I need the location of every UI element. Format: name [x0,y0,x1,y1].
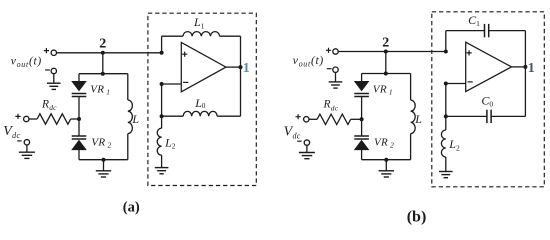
svg-text:2: 2 [99,37,106,52]
wire VR2 to bottom rail (a) [78,150,80,160]
wire right column top (b) [410,74,412,101]
caption (a) [123,200,140,216]
svg-text:2: 2 [382,35,389,50]
wire bottom rail left (a) [162,115,184,117]
label v_out(t) (a) [11,56,42,69]
wire node2 to opamp input (a) [103,52,162,54]
wire tank top rail (b) [362,73,411,75]
varactor VR1 (a) [72,81,87,96]
node opamp - input junction (a) [160,82,182,86]
node vout+ terminal (a) [44,48,103,56]
wire L2 top (a) [161,116,163,128]
wire left column top (b) [361,74,363,82]
wire top rail left (b) [446,30,485,32]
capacitor C0 (b) [487,110,491,123]
node Rdc-varactor junction (b) [360,117,364,121]
ground below L2 (a) [155,155,169,174]
node Rdc-varactor junction (a) [77,117,81,121]
node 2 (a) [99,37,106,55]
wire node2 to opamp input (b) [386,51,446,53]
ground below L2 (b) [439,157,453,178]
wire VR2 to bottom rail (b) [361,150,363,160]
op-amp U (a) [181,42,226,91]
wire VR1 to Rdc node (a) [78,97,80,137]
node Rdc+ terminal (a) [15,114,37,122]
resistor Rdc (a) [37,114,79,124]
node Vdc- terminal (a) [17,140,29,145]
svg-text:(a): (a) [123,200,140,216]
op-amp U (b) [466,42,512,91]
node vout- terminal (a) [45,68,56,73]
label Vdc (a) [3,124,20,140]
label VR1 (b) [373,84,393,97]
wire right rail (a) [240,36,242,116]
label v_out(t) (b) [293,55,324,68]
svg-text:L: L [131,112,139,126]
wire bottom rail right (a) [217,115,240,117]
label Vdc (b) [284,125,301,141]
label Rdc (a) [41,98,57,112]
node Rdc+ terminal (b) [296,114,318,122]
wire right column top (a) [127,74,129,100]
node opamp + input junction (b) [444,50,448,54]
label C1 (b) [468,13,480,28]
wire + input rail up (b) [445,31,447,52]
label VR2 (a) [91,137,111,150]
inductor L2 (a) [157,128,161,155]
capacitor C1 (b) [485,24,489,37]
wire tank top rail (a) [79,73,128,75]
node 2 (b) [382,35,389,53]
inductor L (a) [128,100,133,134]
wire tank bottom rail (b) [362,159,411,161]
wire opamp output (a) [226,66,241,68]
wire - input rail down (b) [445,84,447,117]
wire right rail (b) [524,31,526,117]
wire bottom rail left (b) [446,115,487,117]
wire left column top (a) [78,74,80,82]
varactor VR1 (b) [354,81,369,96]
wire top rail right (a) [220,35,241,37]
wire L2 top (b) [445,116,447,130]
node 1 output (b) [523,61,534,76]
wire top rail left (a) [162,35,183,37]
inductor L1 (a) [183,32,220,37]
svg-text:1: 1 [243,61,250,76]
label VR2 (b) [374,137,394,150]
wire right column bottom (b) [410,134,412,160]
varactor VR2 (b) [354,136,369,150]
inductor L0 (a) [183,111,217,116]
wire opamp output (b) [512,66,526,68]
node vout+ terminal (b) [326,48,386,55]
wire - input rail down (a) [161,84,163,116]
wire node2 down to varactor rail (a) [101,53,105,76]
ground below tank (b) [379,160,394,177]
node opamp - input junction (b) [444,82,466,86]
label L2 (a) [164,135,176,150]
wire node2 down to varactor rail (b) [384,52,388,76]
label L (b) [414,112,422,126]
ground below Vdc (a) [19,145,35,158]
wire + input rail up (a) [161,36,163,53]
ground below vout- (a) [47,74,61,90]
caption (b) [407,208,427,225]
varactor VR2 (a) [72,136,87,150]
resistor Rdc (b) [317,114,362,124]
ground below Vdc (b) [299,145,315,158]
wire right column bottom (a) [127,134,129,160]
dashed feedback box (a) [148,13,256,185]
node bottom rail junction (a) [160,114,164,118]
label L (a) [131,112,139,126]
node tank ground junction (b) [384,158,388,162]
svg-text:L: L [414,112,422,126]
wire VR1 to Rdc node (b) [361,97,363,137]
node opamp + input junction (a) [160,51,164,55]
node Vdc- terminal (b) [297,140,309,145]
ground below tank (a) [96,160,111,177]
label C0 (b) [481,93,493,108]
node vout- terminal (b) [327,67,338,72]
label L0 (a) [194,96,206,110]
wire bottom rail right (b) [491,115,525,117]
inductor L2 (b) [441,130,445,157]
label Rdc (b) [323,99,339,113]
svg-text:(b): (b) [407,208,427,225]
svg-text:1: 1 [528,61,535,76]
label L2 (b) [448,137,460,152]
node bottom rail junction (b) [444,114,448,118]
ground below vout- (b) [329,72,343,88]
inductor L (b) [411,100,416,134]
label VR1 (a) [90,84,110,97]
dashed feedback box (b) [432,12,545,187]
wire top rail right (b) [489,30,526,32]
wire tank bottom rail (a) [79,159,128,161]
node 1 output (a) [239,61,250,76]
node tank ground junction (a) [102,158,106,162]
label L1 (a) [193,15,205,30]
